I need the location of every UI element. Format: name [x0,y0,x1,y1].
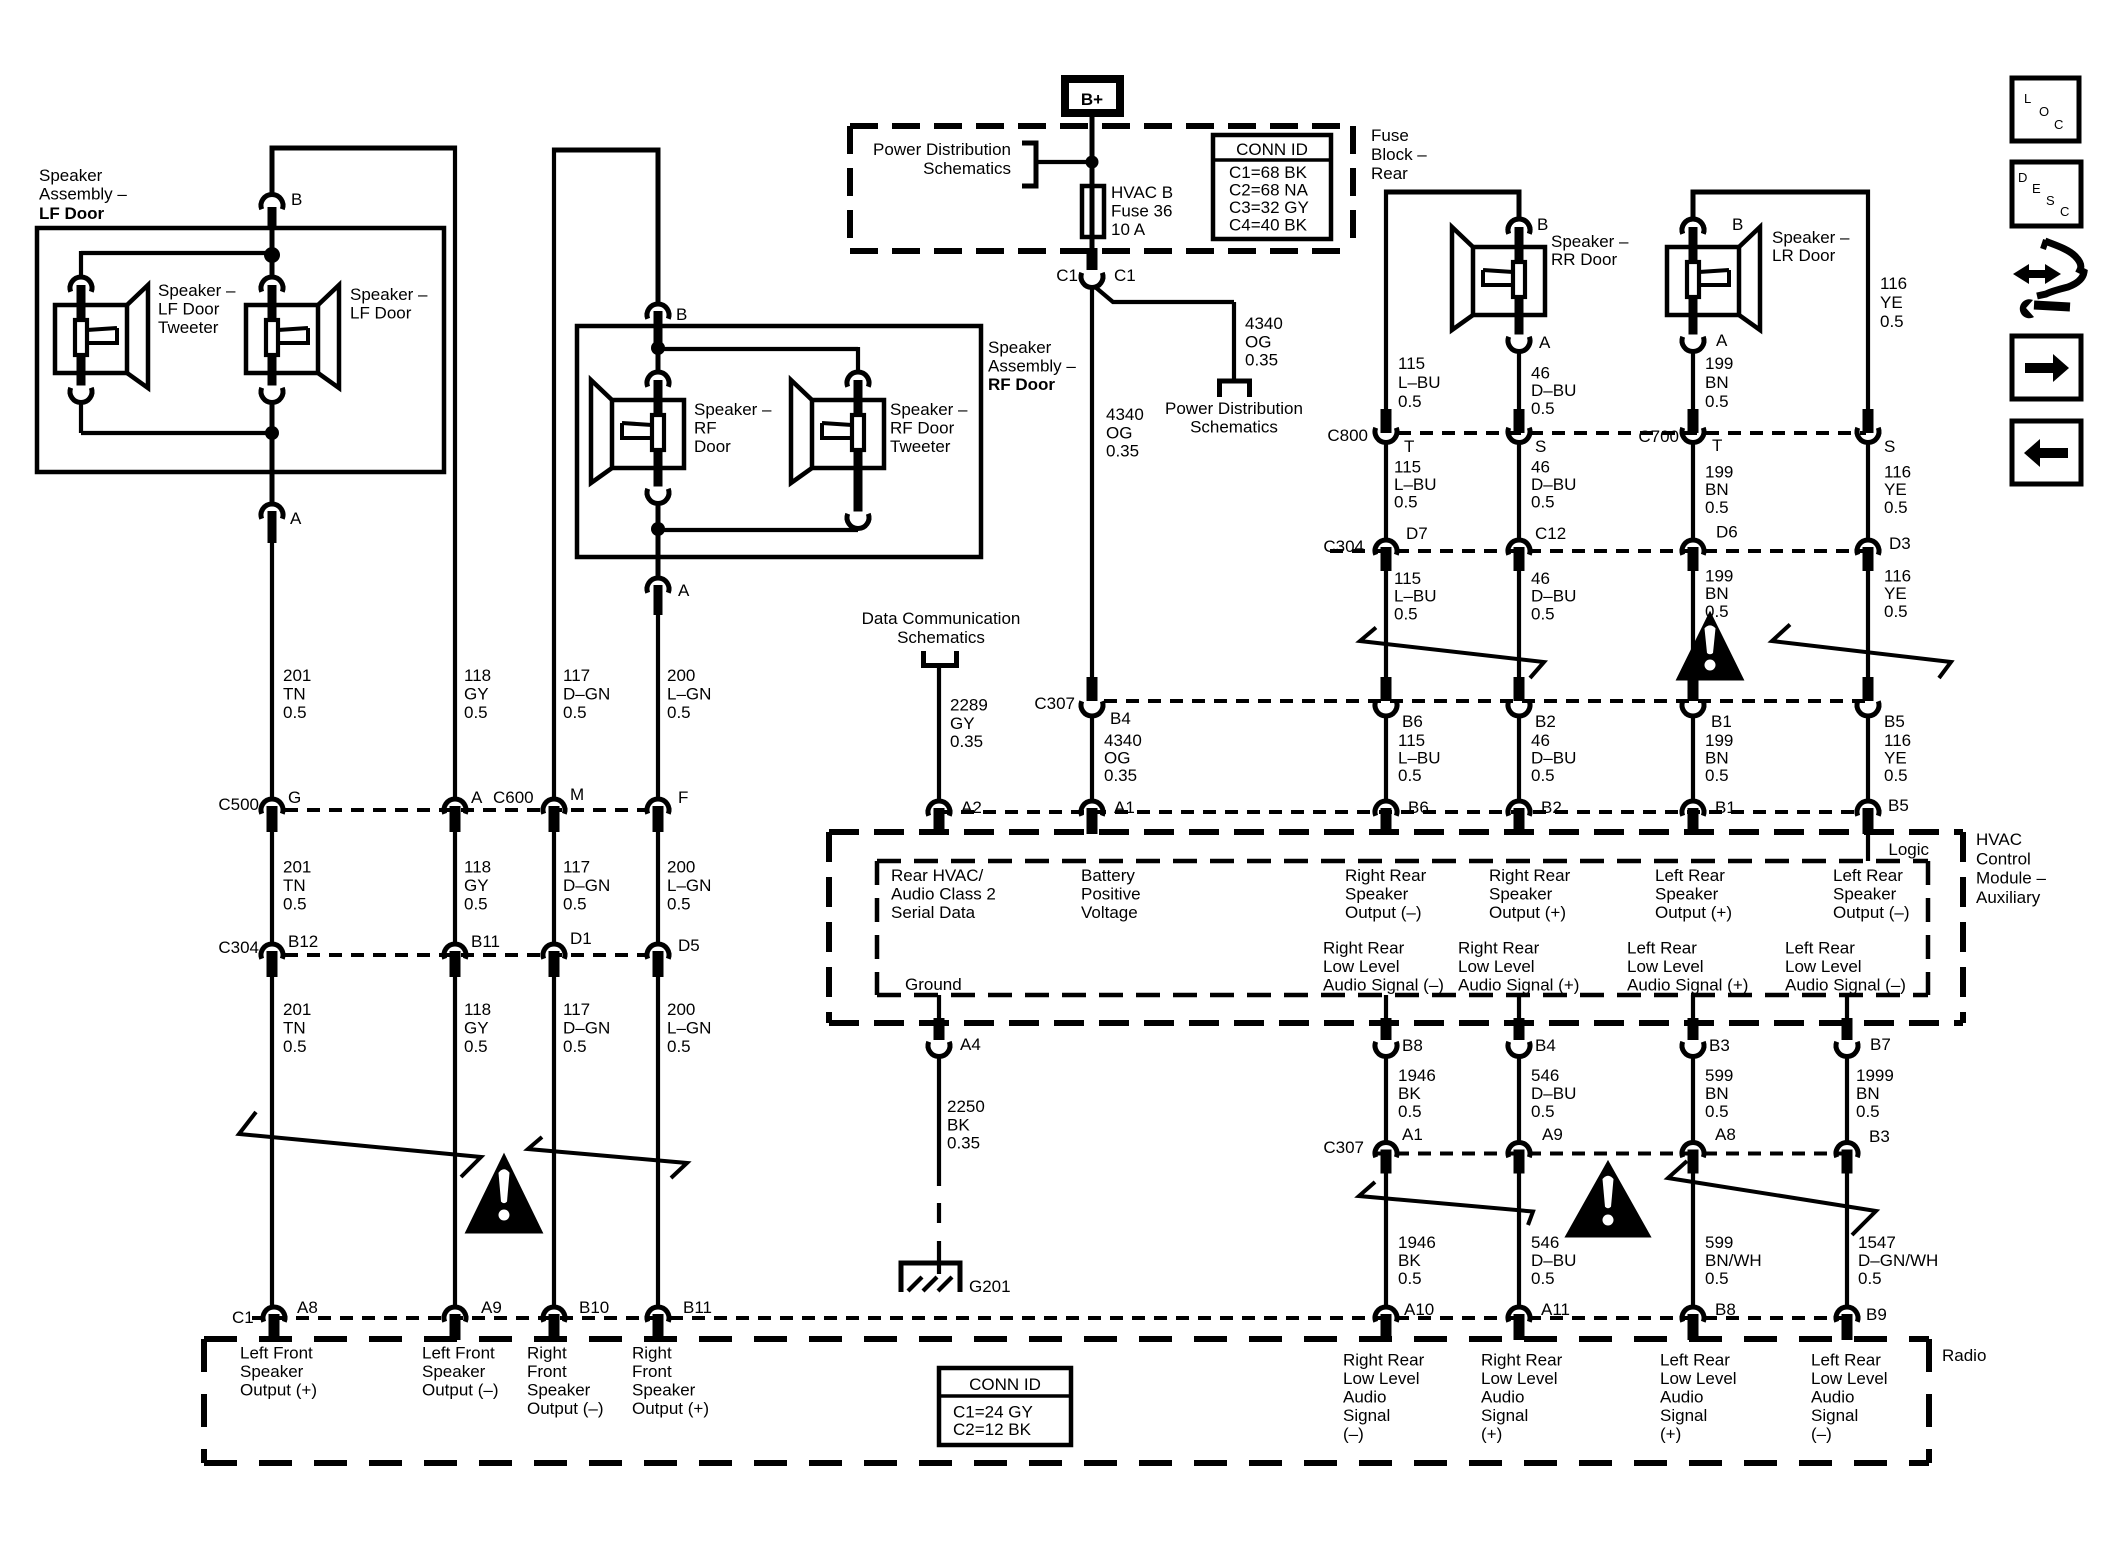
svg-text:115: 115 [1394,569,1421,588]
svg-text:0.35: 0.35 [1245,351,1278,370]
wires col5-col8 between C307 and HVAC [1386,716,1868,801]
svg-text:Speaker: Speaker [1833,885,1897,904]
connector C307 pin B3 lower [1836,1127,1890,1174]
label C307 lower [1323,1138,1364,1157]
svg-text:115: 115 [1394,458,1421,477]
svg-text:B5: B5 [1884,712,1905,731]
svg-text:Left Front: Left Front [422,1344,495,1363]
conn id table radio [939,1368,1071,1445]
HVAC pin B6 [1375,798,1429,834]
wire LR loop top [1693,190,1868,411]
svg-text:46: 46 [1531,458,1550,477]
wire label 115 L-BU 0.5 col5 mid [1394,458,1437,512]
label Left Rear Low Level Audio Signal plus radio [1660,1351,1737,1444]
wire 46 D-BU from RR A [1517,352,1521,410]
wire label 4340 OG 0.35 branch [1245,314,1283,370]
svg-text:Speaker: Speaker [1655,885,1719,904]
svg-text:L: L [2024,91,2031,106]
crossing wires indicator cols 1-2 [239,1112,481,1177]
svg-text:115: 115 [1398,731,1425,750]
connector C800 pin T [1375,409,1414,456]
svg-text:Signal: Signal [1660,1406,1707,1425]
connector C600 pin M [543,785,584,832]
svg-text:D–BU: D–BU [1531,475,1576,494]
svg-text:Left Rear: Left Rear [1833,866,1903,885]
svg-text:T: T [1712,436,1722,455]
svg-text:Tweeter: Tweeter [890,437,951,456]
wire label 546 D-BU 0.5 col6 [1531,1066,1576,1121]
connector C307 pin A9 [1508,1125,1563,1174]
svg-text:C1: C1 [1114,266,1136,285]
svg-text:Right Rear: Right Rear [1323,939,1405,958]
svg-text:C12: C12 [1535,524,1566,543]
svg-text:2289: 2289 [950,696,988,715]
svg-text:D1: D1 [570,929,592,948]
svg-text:0.5: 0.5 [1858,1269,1882,1288]
svg-text:Left Rear: Left Rear [1811,1351,1881,1370]
wire label 118 GY 0.5 col2 mid [464,858,491,914]
wire LF out to connector A [270,433,275,504]
svg-text:(+): (+) [1660,1425,1681,1444]
svg-text:Low Level: Low Level [1627,957,1704,976]
wire label 118 GY 0.5 col2 upper [464,666,491,722]
svg-text:Right Rear: Right Rear [1343,1351,1425,1370]
svg-text:G201: G201 [969,1277,1011,1296]
svg-text:0.5: 0.5 [1705,1269,1729,1288]
crossing wires indicator cols 7-8 lower [1668,1161,1876,1235]
svg-text:B8: B8 [1402,1036,1423,1055]
wire power distribution to node [1036,160,1092,164]
label Right Rear Low Level Audio Signal plus radio [1481,1351,1563,1444]
wire LF tweeter return [81,401,272,433]
svg-text:0.5: 0.5 [1394,604,1418,623]
connector B speaker assembly LF door [261,190,302,229]
svg-text:B3: B3 [1869,1127,1890,1146]
svg-text:YE: YE [1884,584,1907,603]
svg-text:Left Front: Left Front [240,1344,313,1363]
wire label 1946 BK 0.5 col5 lower [1398,1233,1436,1288]
label Right Rear Low Level Audio Signal minus radio [1343,1351,1425,1444]
wire RF main return [656,503,661,529]
wire RF loop top [554,148,658,801]
svg-text:116: 116 [1884,731,1911,750]
svg-text:A11: A11 [1541,1300,1570,1319]
svg-text:Audio Signal (+): Audio Signal (+) [1458,976,1579,995]
svg-text:YE: YE [1884,749,1907,768]
svg-text:Right: Right [527,1344,567,1363]
svg-text:BN: BN [1856,1084,1880,1103]
wire label 118 GY 0.5 col2 lower [464,1000,491,1056]
svg-text:Speaker: Speaker [1489,885,1553,904]
svg-text:Battery: Battery [1081,866,1135,885]
svg-text:1946: 1946 [1398,1066,1436,1085]
HVAC pin B5 [1857,796,1909,834]
svg-text:0.5: 0.5 [667,1037,691,1056]
svg-text:D–GN: D–GN [563,1019,610,1038]
svg-text:Output (–): Output (–) [422,1381,499,1400]
svg-text:Low Level: Low Level [1458,957,1535,976]
svg-text:117: 117 [563,666,590,685]
svg-text:0.5: 0.5 [667,703,691,722]
wire label 46 D-BU 0.5 col6 below C307 [1531,731,1576,785]
connector A speaker RR door [1539,333,1551,352]
svg-text:0.5: 0.5 [1884,766,1908,785]
svg-text:Low Level: Low Level [1343,1369,1420,1388]
wire label 117 D-GN 0.5 col3 mid [563,858,610,914]
svg-text:A1: A1 [1402,1125,1423,1144]
svg-text:OG: OG [1104,749,1130,768]
icon arrow left box [2012,421,2081,484]
svg-text:B1: B1 [1711,712,1732,731]
svg-text:C1: C1 [232,1308,254,1327]
svg-text:D: D [2018,170,2027,185]
svg-text:Speaker: Speaker [988,338,1052,357]
wire label 1547 D-GN/WH 0.5 col8 lower [1858,1233,1938,1288]
junction node RF bottom [651,522,665,536]
svg-text:D7: D7 [1406,524,1428,543]
svg-text:B2: B2 [1541,798,1562,817]
svg-text:T: T [1404,437,1414,456]
wire label 115 L-BU 0.5 col5 upper [1398,354,1441,411]
icon DESC box [2012,162,2081,226]
label Left Front Speaker Output minus [422,1344,499,1400]
svg-text:Left Rear: Left Rear [1627,939,1697,958]
radio pin A8 [263,1298,318,1340]
connector C500 pin G [261,788,301,832]
wire label 199 BN 0.5 col7 below C307 [1705,731,1733,785]
svg-text:BK: BK [1398,1084,1421,1103]
svg-text:B2: B2 [1535,712,1556,731]
svg-text:C307: C307 [1034,694,1075,713]
svg-text:B: B [676,305,687,324]
svg-text:B6: B6 [1408,798,1429,817]
svg-text:OG: OG [1245,332,1271,351]
svg-text:D6: D6 [1716,523,1738,542]
svg-text:B9: B9 [1866,1305,1887,1324]
label Speaker RR Door [1551,232,1629,269]
svg-text:Output (+): Output (+) [240,1381,317,1400]
connector row C307 dashed line [1104,699,1868,703]
svg-text:B: B [1537,215,1548,234]
svg-text:C500: C500 [218,795,259,814]
wire B+ to fuse [1090,117,1095,255]
svg-text:1999: 1999 [1856,1066,1894,1085]
connector row C304 right dashed line [1330,549,1866,553]
off-page bracket data communication [924,651,957,666]
svg-text:A1: A1 [1114,798,1135,817]
svg-text:4340: 4340 [1106,405,1144,424]
speaker RF door tweeter [791,372,884,529]
svg-text:Ground: Ground [905,975,962,994]
connector C500 pin A [444,788,483,832]
svg-text:S: S [1535,437,1546,456]
label Power Distribution Schematics top [873,140,1011,178]
svg-text:S: S [2046,193,2055,208]
speaker LF door main [246,277,339,403]
connector C304 pin D1 [543,929,592,977]
svg-text:0.5: 0.5 [1398,1269,1422,1288]
svg-text:L–BU: L–BU [1398,749,1441,768]
connector C1 fuse block output [1056,248,1135,288]
wire label 199 BN 0.5 col7 upper [1705,354,1733,411]
svg-text:B5: B5 [1888,796,1909,815]
svg-text:Speaker: Speaker [527,1381,591,1400]
svg-text:HVAC B: HVAC B [1111,183,1173,202]
svg-text:0.5: 0.5 [563,1037,587,1056]
svg-text:Low Level: Low Level [1660,1369,1737,1388]
svg-text:A4: A4 [960,1035,981,1054]
svg-text:D3: D3 [1889,534,1911,553]
label Battery Positive Voltage [1081,866,1141,922]
svg-text:0.5: 0.5 [1398,1102,1422,1121]
wire label 201 TN 0.5 col1 upper [283,666,311,722]
label Right Rear Speaker Output minus [1345,866,1427,922]
wire branch to power distribution right [1094,286,1234,381]
svg-text:D–BU: D–BU [1531,749,1576,768]
wire LF main return [270,401,275,433]
warning triangle right upper [1678,614,1742,679]
junction node B+ feed [1086,156,1099,169]
label Speaker RF Door Tweeter [890,400,968,456]
connector row C304 dashed line [285,953,645,957]
label C800 [1327,426,1368,445]
wire lead to junction [270,228,275,255]
svg-text:599: 599 [1705,1233,1733,1252]
wire junction to RF main speaker [656,348,661,374]
connector C307 pin A1 lower [1375,1125,1423,1174]
svg-text:M: M [570,785,584,804]
svg-text:Rear HVAC/: Rear HVAC/ [891,866,984,885]
wire label 1946 BK 0.5 col5 [1398,1066,1436,1121]
svg-text:0.35: 0.35 [1106,442,1139,461]
svg-text:Audio Signal (+): Audio Signal (+) [1627,976,1748,995]
svg-text:C304: C304 [218,938,259,957]
svg-text:0.5: 0.5 [464,895,488,914]
connector C304 pin B12 [261,932,318,977]
svg-text:Serial Data: Serial Data [891,903,976,922]
svg-text:Audio Class 2: Audio Class 2 [891,885,996,904]
svg-text:199: 199 [1705,354,1733,373]
label G201 [969,1277,1011,1296]
svg-text:Signal: Signal [1481,1406,1528,1425]
svg-text:Right Rear: Right Rear [1481,1351,1563,1370]
svg-text:Right Rear: Right Rear [1458,939,1540,958]
svg-text:GY: GY [464,876,489,895]
svg-text:118: 118 [464,1000,491,1019]
svg-text:0.5: 0.5 [1705,498,1729,517]
wire label 599 BN/WH 0.5 col7 lower [1705,1233,1762,1288]
label HVAC B Fuse 36 10 A [1111,183,1173,239]
conn id table fuse block [1213,135,1331,239]
svg-text:RF Door: RF Door [890,419,955,438]
svg-text:0.5: 0.5 [1398,766,1422,785]
wire label 116 YE 0.5 col8 below C307 [1884,731,1911,785]
connector C700 pin S [1857,409,1895,456]
svg-text:Fuse: Fuse [1371,126,1409,145]
HVAC pin B3 [1682,1018,1730,1057]
svg-text:BK: BK [1398,1251,1421,1270]
svg-text:116: 116 [1884,463,1911,482]
svg-text:46: 46 [1531,731,1550,750]
wire label 116 YE 0.5 col8 upper [1880,274,1907,331]
label C304 [218,938,259,957]
svg-text:599: 599 [1705,1066,1733,1085]
label Rear HVAC Audio Class 2 Serial Data [891,866,996,922]
svg-text:B4: B4 [1110,709,1131,728]
svg-text:Speaker –: Speaker – [1772,228,1850,247]
svg-text:S: S [1884,437,1895,456]
wire label 2289 GY 0.35 [950,696,988,752]
svg-text:46: 46 [1531,364,1550,383]
svg-text:D–BU: D–BU [1531,381,1576,400]
svg-text:546: 546 [1531,1066,1559,1085]
svg-text:OG: OG [1106,423,1132,442]
label Right Rear Low Level Audio Signal minus [1323,939,1444,995]
crossing wires indicator col 8 upper [1772,625,1951,679]
svg-text:Schematics: Schematics [897,628,985,647]
svg-text:0.35: 0.35 [947,1134,980,1153]
label C600 [493,788,534,807]
svg-text:LF Door: LF Door [39,204,105,223]
svg-text:Right Rear: Right Rear [1489,866,1571,885]
svg-text:Data Communication: Data Communication [862,609,1021,628]
svg-text:HVAC: HVAC [1976,830,2022,849]
svg-text:0.5: 0.5 [1394,493,1418,512]
svg-text:199: 199 [1705,731,1733,750]
svg-text:Speaker: Speaker [1345,885,1409,904]
svg-text:0.5: 0.5 [1398,392,1422,411]
ground G201 symbol [901,1263,960,1292]
svg-text:Audio: Audio [1343,1388,1386,1407]
svg-text:199: 199 [1705,463,1733,482]
wire label 116 YE 0.5 col8 lower [1884,567,1911,621]
wires col5-col8 HVAC to C307 lower [1386,1056,1847,1142]
svg-text:Voltage: Voltage [1081,903,1138,922]
label C307 mid [1034,694,1075,713]
connector C307 pin B6 [1375,677,1423,731]
label Speaker RF Door [694,400,772,456]
svg-text:B3: B3 [1709,1036,1730,1055]
svg-text:A9: A9 [1542,1125,1563,1144]
battery feed B+ symbol [1065,79,1120,113]
svg-text:B11: B11 [471,932,500,951]
svg-text:Low Level: Low Level [1785,957,1862,976]
svg-text:Schematics: Schematics [923,159,1011,178]
label C500 [218,795,259,814]
svg-text:200: 200 [667,1000,695,1019]
HVAC pin A1 [1081,798,1135,834]
label Power Distribution Schematics right [1165,399,1303,437]
radio pin A9 [444,1298,502,1340]
svg-text:117: 117 [563,1000,590,1019]
connector A speaker LR door [1716,331,1728,350]
svg-text:0.5: 0.5 [464,1037,488,1056]
svg-text:Auxiliary: Auxiliary [1976,888,2041,907]
speaker LR door [1667,219,1760,352]
svg-text:Module –: Module – [1976,869,2046,888]
connector C307 pin B1 [1682,677,1732,731]
svg-text:2250: 2250 [947,1097,985,1116]
svg-text:F: F [678,788,688,807]
svg-text:RF Door: RF Door [988,375,1055,394]
svg-text:Left Rear: Left Rear [1785,939,1855,958]
svg-text:0.5: 0.5 [283,703,307,722]
svg-text:Speaker: Speaker [240,1362,304,1381]
wire 2289 GY [937,667,941,800]
speaker RF door main [591,372,684,504]
wire label 116 YE 0.5 col8 mid [1884,463,1911,517]
wire label 46 D-BU 0.5 col6 upper [1531,364,1576,418]
label Left Rear Speaker Output minus [1833,866,1910,922]
speaker assembly RF door box [577,326,981,557]
svg-text:Low Level: Low Level [1481,1369,1558,1388]
svg-text:B: B [1732,215,1743,234]
wire label 115 L-BU 0.5 col5 below C307 [1398,731,1441,785]
svg-text:Block –: Block – [1371,145,1427,164]
svg-text:(–): (–) [1811,1425,1832,1444]
svg-text:Assembly –: Assembly – [988,357,1076,376]
svg-text:C1: C1 [1056,266,1078,285]
svg-text:Signal: Signal [1811,1406,1858,1425]
svg-text:C304: C304 [1323,537,1364,556]
svg-text:Output (–): Output (–) [527,1399,604,1418]
wires logic box to HVAC bottom pins [939,995,1847,1022]
svg-text:Output (–): Output (–) [1345,903,1422,922]
svg-text:0.5: 0.5 [563,895,587,914]
HVAC pin B4 [1508,1018,1556,1057]
wire label 117 D-GN 0.5 col3 lower [563,1000,610,1056]
svg-text:0.5: 0.5 [464,703,488,722]
label Speaker LF Door Tweeter [158,281,236,337]
connector C304 pin B11 [444,932,500,977]
svg-text:BN: BN [1705,480,1729,499]
svg-text:0.5: 0.5 [667,895,691,914]
svg-text:C2=12 BK: C2=12 BK [953,1420,1032,1439]
HVAC pin B8 [1375,1018,1423,1057]
svg-text:A: A [1539,333,1551,352]
icon LOC box [2012,78,2079,141]
wire 4340 OG main down [1090,287,1094,678]
warning triangle left [467,1156,541,1232]
svg-text:L–GN: L–GN [667,685,711,704]
svg-text:A8: A8 [297,1298,318,1317]
svg-text:Output (+): Output (+) [1655,903,1732,922]
svg-text:B11: B11 [683,1298,712,1317]
svg-text:B10: B10 [579,1298,609,1317]
svg-text:Low Level: Low Level [1811,1369,1888,1388]
svg-text:Speaker: Speaker [632,1381,696,1400]
svg-text:1547: 1547 [1858,1233,1896,1252]
label Left Rear Low Level Audio Signal minus [1785,939,1906,995]
svg-text:Audio: Audio [1660,1388,1703,1407]
wire B4 to A1 [1090,716,1094,801]
warning triangle bottom right [1567,1163,1649,1236]
svg-text:0.5: 0.5 [283,1037,307,1056]
HVAC top pins dashed connector line [939,810,1868,814]
svg-text:L–BU: L–BU [1398,373,1441,392]
connector row C500 C600 dashed line [285,808,645,812]
svg-text:BK: BK [947,1115,970,1134]
svg-text:CONN ID: CONN ID [969,1375,1041,1394]
svg-text:0.5: 0.5 [1705,1102,1729,1121]
connector A speaker assembly LF door [261,504,302,543]
svg-text:GY: GY [464,685,489,704]
svg-text:Door: Door [694,437,731,456]
connector C307 pin B2 [1508,677,1556,731]
svg-text:G: G [288,788,301,807]
label Speaker Assembly RF Door [988,338,1076,394]
junction node LF bottom [265,426,279,440]
